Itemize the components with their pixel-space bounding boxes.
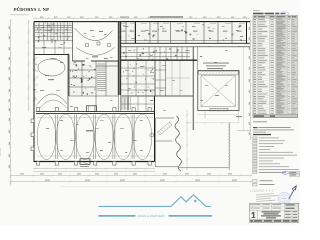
annex dimension line [186, 110, 188, 170]
table title LEGENDA MISTNOSTI [253, 13, 264, 15]
wing interior wall y60 [121, 59, 197, 61]
top band room partitions [126, 22, 232, 43]
legend area boxes right [289, 172, 299, 174]
mid block vertical wall x165 [165, 60, 167, 96]
left column window marks [33, 60, 36, 100]
top dimension labels [40, 17, 246, 18]
title block bottom dark row [249, 219, 298, 222]
hall top entrance bump [87, 106, 97, 112]
main interior corridor wall vertical (double) [117, 22, 119, 95]
terrace bottom line [179, 167, 229, 169]
hall top pilasters [37, 108, 152, 112]
outer wall left [33, 22, 35, 162]
second left dimension chain [28, 20, 30, 111]
ellipse room label [48, 79, 54, 80]
second band specks [123, 48, 186, 60]
lines below X-room [204, 111, 206, 120]
X-room inner rect [201, 76, 236, 107]
legend extra squares below [253, 180, 257, 183]
hall top wall (double) [36, 110, 155, 112]
logo top line with mountains [99, 195, 212, 207]
scan artifact faint left mark [0, 148, 2, 156]
corridor horizontal wall lower [121, 46, 250, 48]
bottom dimension labels row 1 [20, 173, 232, 174]
table total row [253, 114, 298, 117]
ellipse room upper ellipse [38, 59, 65, 76]
bottom dimension labels row 2 [45, 180, 237, 181]
legend last wide row [253, 171, 257, 173]
sum line under table [253, 121, 267, 122]
fan room bottom wall [73, 60, 119, 62]
wing bottom wall [155, 95, 194, 97]
small text above table [253, 10, 260, 11]
X-room bottom door hatched [210, 108, 228, 111]
terrace scalloped wall [175, 116, 181, 171]
top-left rooms partitions [35, 22, 73, 61]
curved hall inner arc left [76, 48, 96, 56]
small dimension marks below hall door [80, 166, 89, 167]
legend title [253, 134, 271, 135]
left dimension labels [9, 26, 10, 168]
curved hall outline [73, 22, 119, 61]
top dimension line [33, 17, 250, 19]
line from strip to dimension [237, 130, 251, 132]
pen signature stroke [289, 186, 296, 199]
main interior corridor wall fill [118, 22, 120, 95]
left column small rooms [34, 58, 38, 105]
right vertical dimension line [250, 20, 252, 140]
inner right dimension chain [243, 46, 245, 130]
table header fill [253, 15, 298, 18]
faint note under title [10, 14, 29, 16]
top band right wall [246, 22, 248, 44]
terrace diagonal ramp hatched [158, 122, 173, 135]
X-room diagonal 2 [201, 76, 236, 107]
sanitary fixtures specks [70, 62, 96, 95]
annex column circle [150, 133, 154, 137]
hall bottom pilasters [37, 162, 152, 166]
blue pen oval on title [280, 12, 289, 16]
X-room labels above [203, 63, 229, 64]
top band heavy wall x135 [135, 22, 137, 43]
outer wall top [34, 21, 250, 23]
hall bottom door center [80, 159, 90, 165]
wing right wall vertical x193 [192, 47, 194, 130]
mid right specks [123, 64, 154, 94]
mid block vertical wall x155 [154, 60, 156, 96]
gray address lines [256, 193, 278, 202]
curved hall stage label [92, 56, 98, 57]
scan tint mid right zone [121, 47, 190, 96]
corridor horizontal wall upper [121, 42, 250, 44]
ellipse room walls [67, 54, 69, 112]
title block right highlight cell [285, 204, 299, 207]
legend rows [253, 137, 299, 171]
curved hall big arc [75, 28, 113, 41]
terrace step below X-room [197, 114, 238, 116]
title block row lines [249, 206, 298, 208]
long bottom dimension line 1 [11, 174, 253, 176]
title block upper text bars [250, 204, 281, 208]
wall between ellipse room and sanitary [68, 55, 70, 97]
curved hall inner arc right [96, 48, 115, 56]
second band rooms partitions [121, 47, 190, 60]
small marks near strip top [236, 116, 242, 117]
top band furniture [119, 24, 242, 40]
curved hall seats [86, 44, 89, 47]
title block center titles [261, 211, 281, 218]
table rows [253, 18, 298, 114]
hall outer wall bottom [34, 161, 155, 163]
connector rooms below mid block [121, 96, 155, 111]
note text under table [253, 127, 258, 128]
table header underline [253, 17, 298, 19]
scan tint top band [121, 21, 247, 43]
corridor label text above top rooms [150, 16, 183, 17]
hall column lines between ellipses [55, 115, 134, 160]
round blue stamp [278, 192, 290, 204]
scan tint sanitary zone [68, 61, 118, 96]
hall left pilasters [31, 119, 34, 151]
staircase treads [97, 64, 106, 91]
plan annotation specks [40, 26, 243, 153]
long bottom dimension line 2 [11, 181, 253, 183]
left vertical dimension line [10, 19, 12, 186]
annex room right of hall [156, 118, 179, 167]
svg-text:HOLÍK & PARTNEŘI: HOLÍK & PARTNEŘI [138, 214, 165, 218]
top band window sills [121, 22, 245, 24]
blue pen mark near area boxes [283, 171, 289, 174]
hall vault springing lines [37, 117, 153, 119]
X-room diagonal 1 [201, 76, 236, 107]
left column specks [35, 62, 38, 98]
stair flight below mid block [122, 97, 131, 110]
fan room door gap [85, 60, 92, 62]
right dimension labels [249, 27, 250, 135]
hall outer wall right [154, 96, 156, 162]
fence line east [228, 123, 230, 171]
table column lines [257, 15, 291, 117]
top band room labels [121, 31, 242, 32]
sanitary rooms partitions [69, 61, 118, 112]
ellipse room lower arc big [38, 94, 68, 104]
mid-right rooms bottom wall [121, 95, 155, 97]
logo bottom line right [169, 215, 213, 217]
svg-text:PŮDORYS 1. NP: PŮDORYS 1. NP [14, 6, 49, 12]
east corridor light partitions [166, 61, 190, 97]
title block number cell [256, 210, 258, 219]
mid right rooms partitions [121, 60, 166, 96]
hall interior ellipses [37, 114, 152, 160]
title block right sub-cells [284, 210, 286, 219]
hall bottom dimension chain [33, 168, 155, 170]
X-room top hatched band [199, 71, 239, 74]
wall under ellipse room top [34, 54, 69, 56]
logo mountain dot [194, 200, 196, 202]
logo bottom line left [99, 215, 136, 217]
scan tint top-left block [33, 21, 73, 43]
hall label 1.36 [86, 130, 93, 131]
table outer border [253, 15, 298, 117]
table shaded columns [276, 18, 288, 114]
top band bottom windows line [121, 40, 246, 42]
top-left furniture dark specks [36, 23, 71, 44]
title block outer border [249, 203, 298, 222]
X-room outer walls [198, 71, 239, 111]
title block column lines upper [253, 203, 285, 210]
